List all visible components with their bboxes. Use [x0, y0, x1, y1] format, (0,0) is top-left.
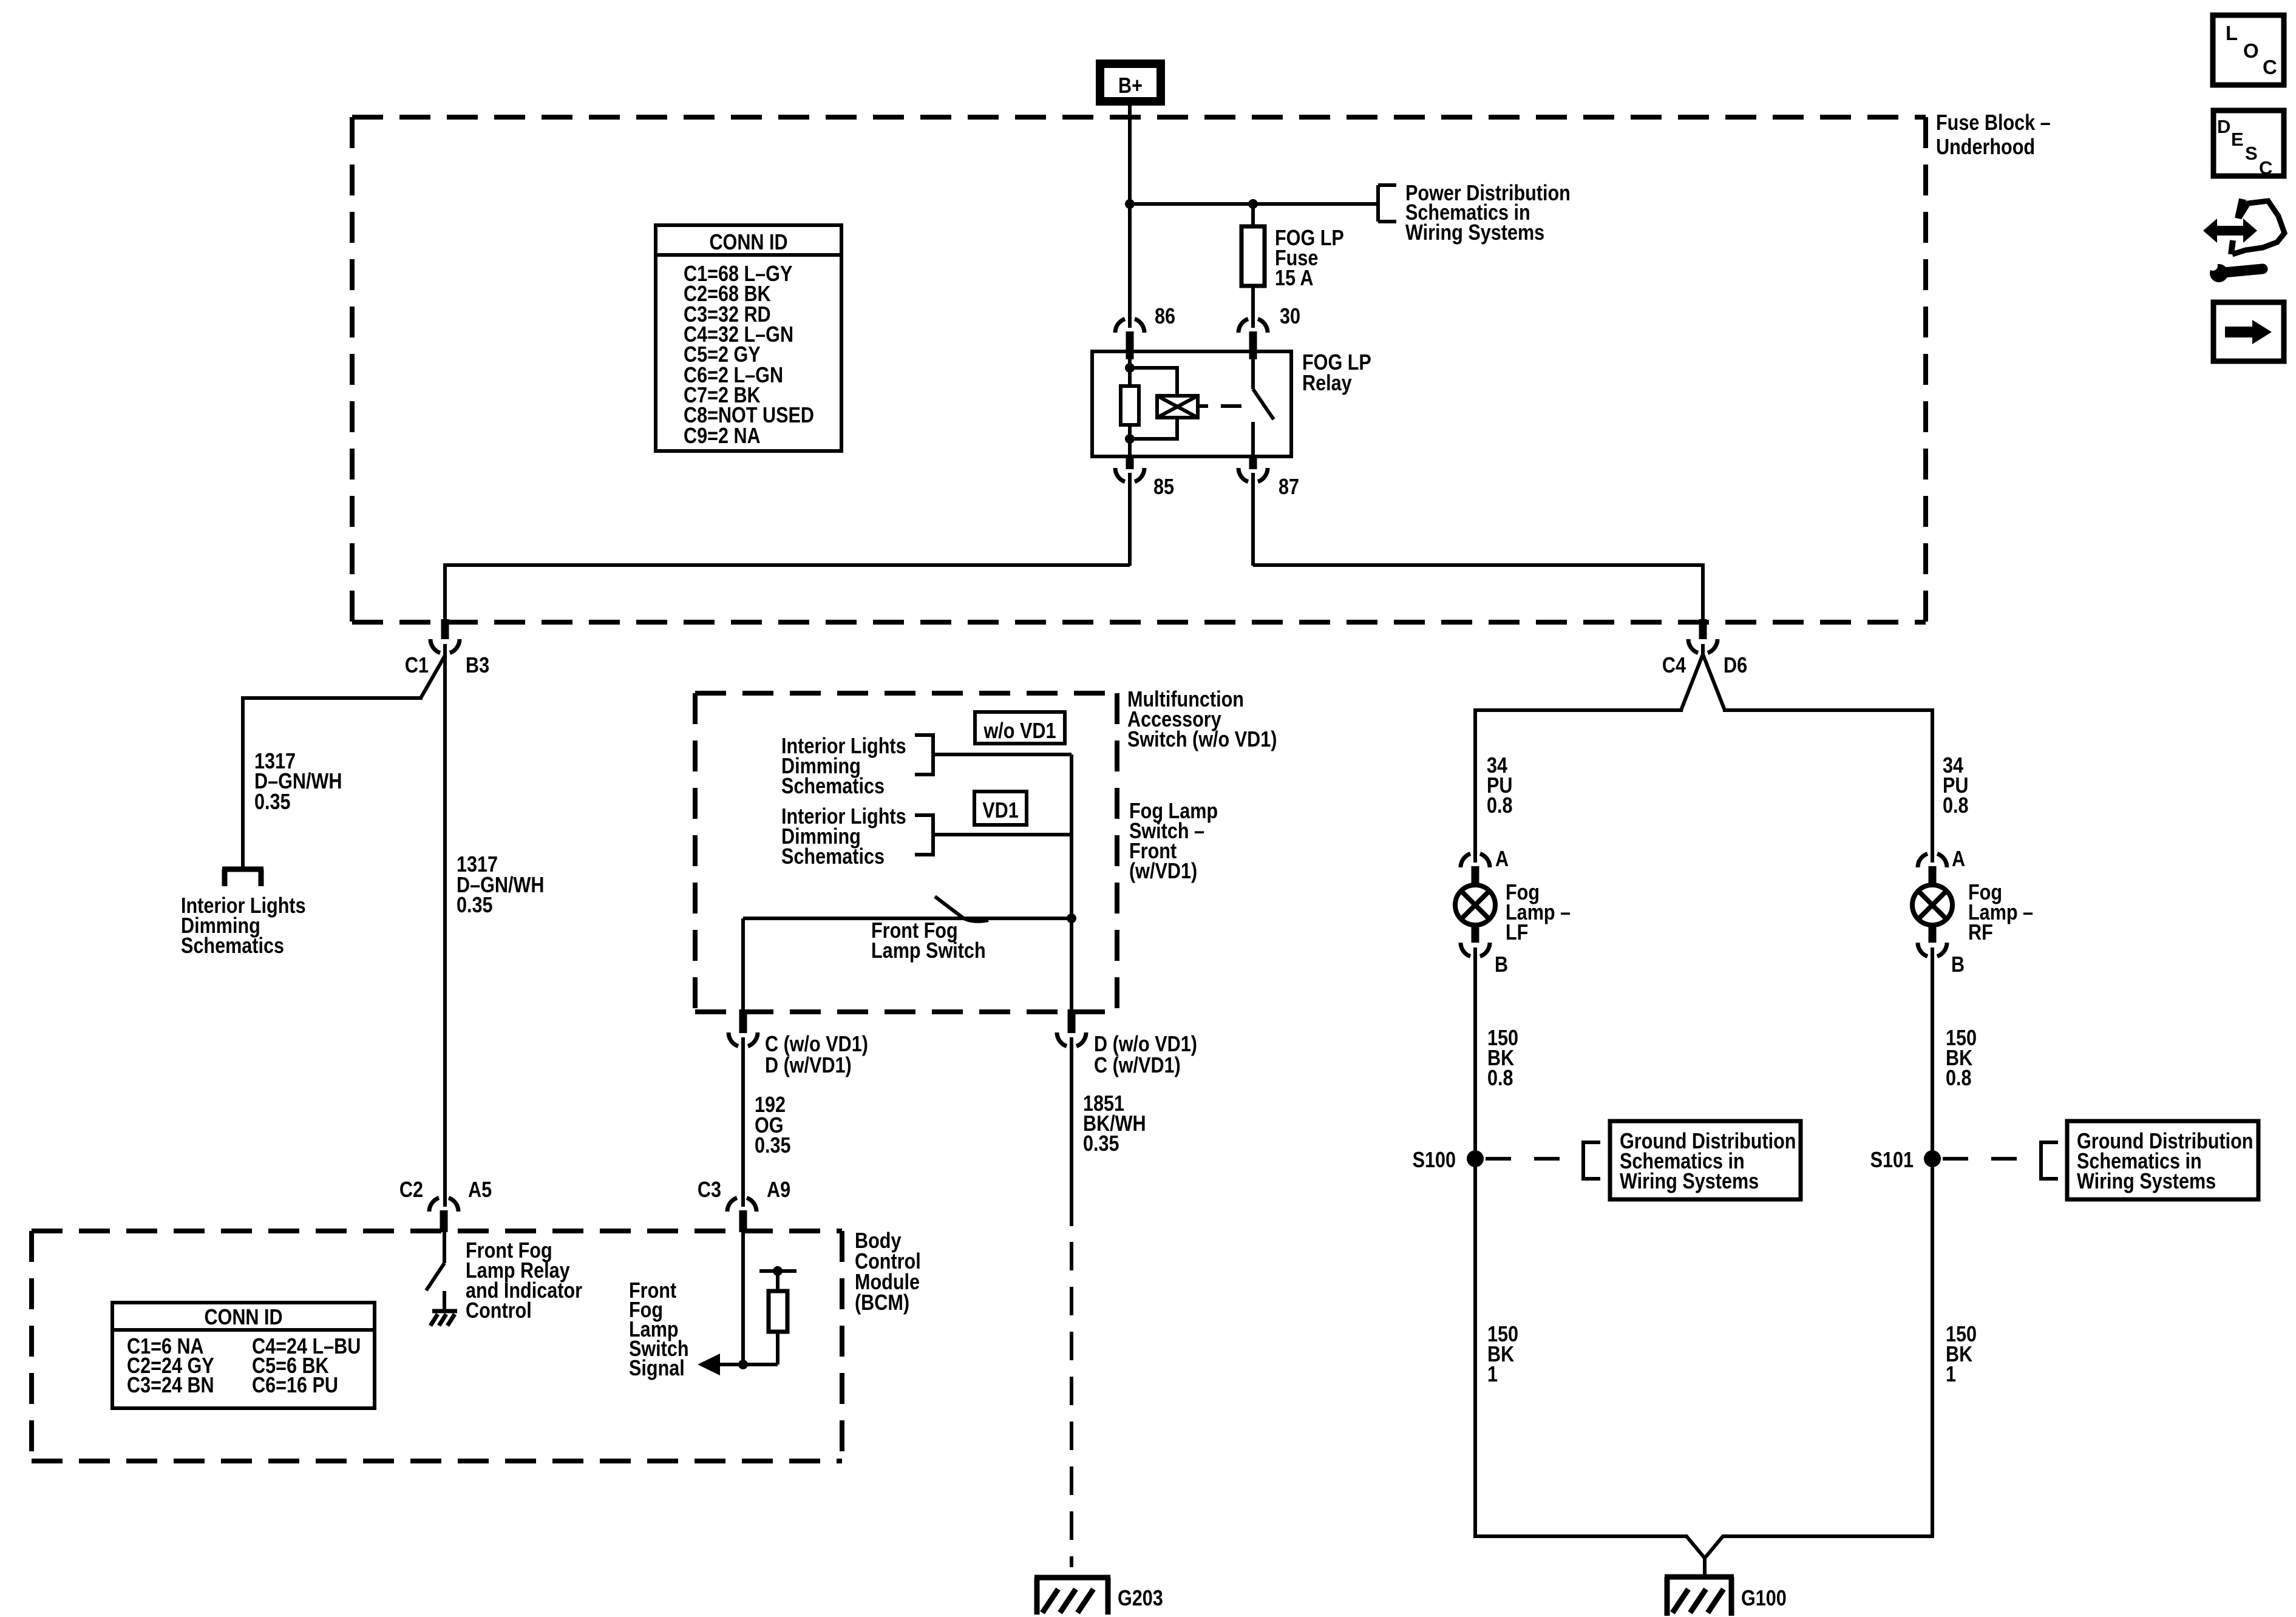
connector C2/A5 [399, 1178, 492, 1232]
svg-text:E: E [2231, 129, 2244, 150]
svg-text:Schematics: Schematics [181, 934, 284, 958]
icon LOC box [2213, 15, 2284, 85]
BCM relay control switch [426, 1232, 444, 1290]
wire lower dimming feed [933, 833, 1072, 836]
connector C1/B3 [405, 619, 489, 678]
svg-text:C6=16 PU: C6=16 PU [252, 1374, 338, 1398]
wire pin 85 down to left bus [1128, 473, 1132, 566]
svg-text:C: C [2259, 157, 2272, 178]
svg-text:Lamp Switch: Lamp Switch [871, 939, 986, 963]
arrowhead front fog lamp switch signal [698, 1354, 720, 1375]
node junction at fuse tap [1248, 199, 1258, 209]
splice S101 [1870, 1148, 1941, 1173]
label circuit 192 OG 0.35 [755, 1093, 791, 1158]
connector C3/A9 [698, 1178, 790, 1232]
label circuit 1317 D-GN/WH 0.35 (main) [457, 853, 544, 918]
ground G100 [1665, 1577, 1787, 1616]
wire from B+ down to relay pin 86 [1128, 106, 1132, 328]
svg-text:0.35: 0.35 [457, 893, 493, 918]
relay coil [1157, 396, 1198, 418]
label circuit 150 BK 0.8 (right) [1946, 1026, 1977, 1091]
wire upper dimming feed [933, 753, 1072, 756]
svg-text:Wiring Systems: Wiring Systems [1620, 1170, 1759, 1194]
dashed link S101 [1943, 1157, 2036, 1161]
connector A left lamp [1461, 847, 1509, 886]
connector C (w/o VD1) / D (w/VD1) [729, 1009, 868, 1078]
svg-text:VD1: VD1 [982, 799, 1019, 823]
label Body Control Module (BCM) [855, 1229, 921, 1315]
wire branch to coil [1130, 368, 1177, 396]
svg-text:Underhood: Underhood [1936, 135, 2035, 160]
svg-text:CONN ID: CONN ID [204, 1306, 282, 1330]
coil stub to contact [1198, 404, 1208, 408]
fuse FOG LP 15 A [1241, 226, 1265, 286]
label Interior Lights Dimming Schematics (lower) [781, 805, 906, 869]
connector pin 87 [1238, 455, 1268, 482]
svg-text:A: A [1952, 847, 1965, 872]
label circuit 150 BK 1 (right) [1946, 1323, 1977, 1387]
icon arrow box [2213, 302, 2284, 361]
wire branch vertical [241, 696, 245, 868]
wire BCM input from C3 [741, 1232, 745, 1364]
icon double arrow [2203, 219, 2257, 243]
wire ground stub [1703, 1557, 1707, 1577]
svg-text:(w/VD1): (w/VD1) [1129, 859, 1197, 884]
label circuit 150 BK 1 (left) [1487, 1323, 1518, 1387]
svg-text:S: S [2245, 143, 2258, 164]
connector pin 86 [1115, 319, 1144, 359]
svg-text:Wiring Systems: Wiring Systems [2077, 1170, 2216, 1194]
svg-text:G100: G100 [1741, 1587, 1787, 1611]
splice S100 [1413, 1148, 1484, 1173]
wire fork from C4/D6 [1681, 644, 1725, 710]
svg-text:0.8: 0.8 [1943, 794, 1969, 818]
svg-text:0.8: 0.8 [1946, 1066, 1972, 1091]
lamp E2 Fog Lamp RF [1912, 885, 1952, 925]
svg-text:D (w/VD1): D (w/VD1) [765, 1054, 852, 1078]
svg-text:B+: B+ [1118, 74, 1143, 98]
svg-text:B3: B3 [466, 654, 489, 678]
svg-text:C1: C1 [405, 654, 429, 678]
label Interior Lights Dimming Schematics [181, 894, 306, 958]
wire branch diagonal to interior lights dimming [421, 656, 445, 698]
svg-text:D (w/o VD1): D (w/o VD1) [1094, 1032, 1197, 1057]
connector C4/D6 [1662, 619, 1747, 678]
wire switch left leg down [741, 918, 745, 1011]
wire from tap to fuse [1251, 204, 1255, 226]
connector D (w/o VD1) / C (w/VD1) [1057, 1009, 1197, 1078]
wire resistor to signal line [776, 1332, 779, 1364]
wire coil bottom to resistor bottom [1130, 418, 1177, 439]
BCM pull-up resistor [769, 1291, 787, 1332]
svg-text:Control: Control [466, 1299, 532, 1323]
wire front fog lamp switch output [743, 917, 1072, 920]
svg-text:G203: G203 [1118, 1587, 1163, 1611]
battery feed B+ [1100, 64, 1161, 101]
svg-text:85: 85 [1153, 475, 1174, 500]
wire relay coil top [1128, 358, 1132, 386]
BCM internal ground [430, 1291, 457, 1326]
multifunction accessory switch dashed box [695, 693, 1117, 1012]
svg-text:30: 30 [1280, 305, 1300, 329]
wire horizontal feed to fuse and power distribution [1130, 202, 1378, 206]
svg-text:L: L [2226, 22, 2238, 44]
node switch common [1067, 914, 1076, 923]
wire switch common vertical [1070, 754, 1073, 918]
body control module dashed box [32, 1231, 842, 1461]
svg-text:1: 1 [1487, 1363, 1498, 1387]
connector pin 30 [1238, 319, 1268, 359]
wire switch right leg down [1070, 918, 1073, 1011]
node BCM signal junction [738, 1360, 748, 1369]
wire right lamp feed [1723, 710, 1932, 863]
svg-text:D6: D6 [1724, 654, 1747, 678]
connector A right lamp [1918, 847, 1965, 886]
svg-text:S101: S101 [1870, 1148, 1914, 1173]
svg-text:A5: A5 [468, 1178, 492, 1202]
wire C3 drop [741, 1037, 745, 1207]
lamp E1 Fog Lamp LF [1455, 885, 1495, 925]
label FOG LP Relay [1302, 351, 1371, 396]
relay switch blade [1253, 389, 1274, 419]
svg-text:Signal: Signal [629, 1357, 685, 1381]
svg-text:C: C [2263, 56, 2277, 78]
wire branch horizontal [243, 696, 423, 700]
icon hook outline [2231, 199, 2284, 254]
dashed link S100 [1486, 1157, 1578, 1161]
bracket S100 reference [1583, 1142, 1600, 1179]
CONN ID table fuse block [656, 225, 841, 451]
svg-text:B: B [1951, 953, 1965, 977]
svg-text:Relay: Relay [1302, 371, 1352, 396]
svg-text:Schematics: Schematics [781, 845, 885, 869]
label Front Fog Lamp Relay and Indicator Control [466, 1239, 582, 1323]
wire left main drop C1 to C2 [443, 644, 447, 1207]
svg-text:(BCM): (BCM) [855, 1291, 909, 1315]
svg-text:C2: C2 [399, 1178, 423, 1202]
bracket S101 reference [2041, 1142, 2058, 1179]
icon wrench [2208, 261, 2263, 282]
svg-text:O: O [2243, 39, 2259, 62]
svg-text:1: 1 [1946, 1363, 1956, 1387]
bracket upper dimming feed [915, 735, 933, 775]
splice comb to interior lights dimming schematics [222, 869, 263, 886]
label Fog Lamp - LF [1506, 881, 1571, 945]
svg-text:A: A [1495, 847, 1509, 872]
svg-text:0.35: 0.35 [1083, 1132, 1119, 1156]
wire pin 87 down to right bus [1251, 473, 1255, 566]
icon DESC box [2213, 110, 2284, 178]
svg-text:RF: RF [1968, 921, 1993, 945]
label circuit 1851 BK/WH 0.35 [1083, 1092, 1146, 1156]
svg-text:C (w/VD1): C (w/VD1) [1094, 1054, 1181, 1078]
front fog lamp switch blade [935, 897, 988, 921]
wire from fuse to relay pin 30 [1251, 286, 1255, 328]
fuse block underhood dashed box [352, 117, 1926, 622]
svg-text:Fuse Block –: Fuse Block – [1936, 111, 2051, 135]
ground G203 [1034, 1578, 1163, 1615]
label circuit 34 PU 0.8 (right) [1943, 754, 1969, 818]
reference box Ground Distribution (right) [2067, 1121, 2258, 1199]
connector B left lamp [1461, 924, 1508, 977]
svg-text:Schematics: Schematics [781, 775, 885, 799]
wire resistor bottom to pin 85 [1128, 425, 1132, 456]
svg-text:C (w/o VD1): C (w/o VD1) [765, 1032, 868, 1057]
label circuit 1317 D-GN/WH 0.35 (branch) [254, 750, 342, 815]
label Fog Lamp Switch - Front (w/VD1) [1129, 799, 1218, 884]
svg-text:86: 86 [1155, 305, 1175, 329]
label Front Fog Lamp Switch [871, 919, 986, 963]
relay switch contact 87 side [1251, 422, 1255, 456]
svg-text:CONN ID: CONN ID [709, 231, 787, 255]
svg-text:C9=2 NA: C9=2 NA [684, 424, 761, 449]
wire right bus to C4 drop [1253, 565, 1703, 620]
connector pin 85 [1115, 455, 1144, 482]
wire ground bus right [1705, 1536, 1932, 1558]
label FOG LP Fuse 15 A [1275, 226, 1344, 291]
node junction on B+ feed [1125, 199, 1135, 209]
svg-text:B: B [1495, 953, 1508, 977]
svg-text:Wiring Systems: Wiring Systems [1405, 221, 1544, 245]
svg-text:C4: C4 [1662, 654, 1686, 678]
svg-text:0.8: 0.8 [1487, 1066, 1513, 1091]
bracket to Power Distribution reference [1378, 185, 1396, 222]
wire 1851 solid part [1070, 1037, 1073, 1226]
wire right lamp ground leg [1931, 947, 1934, 1538]
svg-text:0.35: 0.35 [755, 1134, 791, 1158]
label Multifunction Accessory Switch (w/o VD1) [1127, 688, 1277, 752]
svg-text:D: D [2217, 116, 2230, 137]
dashed mechanical link [1221, 404, 1241, 408]
svg-text:LF: LF [1506, 921, 1528, 945]
wire signal with arrow [714, 1363, 778, 1366]
wire left lamp ground leg [1473, 947, 1477, 1538]
svg-text:w/o VD1: w/o VD1 [983, 719, 1056, 744]
label Interior Lights Dimming Schematics (upper) [781, 734, 906, 799]
wire left lamp feed [1475, 710, 1683, 863]
svg-text:87: 87 [1279, 475, 1299, 500]
tag box w/o VD1 [975, 712, 1065, 744]
label circuit 34 PU 0.8 (left) [1487, 754, 1513, 818]
reference box Ground Distribution (left) [1610, 1121, 1801, 1199]
bracket lower dimming feed [915, 815, 933, 855]
svg-text:0.35: 0.35 [254, 790, 291, 815]
connector B right lamp [1918, 924, 1965, 977]
relay switch contact 30 side [1251, 358, 1255, 389]
node coil bottom [1125, 434, 1135, 444]
label circuit 150 BK 0.8 (left) [1487, 1026, 1518, 1091]
node coil top [1125, 363, 1135, 373]
label Power Distribution Schematics in Wiring Systems [1405, 181, 1571, 245]
relay K1 FOG LP Relay box [1092, 351, 1291, 456]
relay suppression resistor [1121, 386, 1139, 425]
label Front Fog Lamp Switch Signal [629, 1279, 689, 1381]
BCM pull-up resistor tap bar [759, 1266, 796, 1291]
wire 1851 dashed part to G203 [1070, 1242, 1073, 1567]
tag box VD1 [974, 792, 1027, 825]
svg-text:C3=24 BN: C3=24 BN [127, 1374, 214, 1398]
svg-text:15 A: 15 A [1275, 266, 1313, 291]
svg-text:A9: A9 [767, 1178, 790, 1202]
CONN ID table BCM [112, 1303, 375, 1408]
svg-text:0.8: 0.8 [1487, 794, 1513, 818]
svg-text:C3: C3 [698, 1178, 721, 1202]
label Fog Lamp - RF [1968, 881, 2033, 945]
svg-text:Switch (w/o VD1): Switch (w/o VD1) [1127, 728, 1277, 752]
svg-text:S100: S100 [1413, 1148, 1456, 1173]
wire ground bus left [1475, 1536, 1705, 1558]
label Fuse Block - Underhood [1936, 111, 2051, 160]
wire left bus to C1 drop [445, 565, 1130, 620]
